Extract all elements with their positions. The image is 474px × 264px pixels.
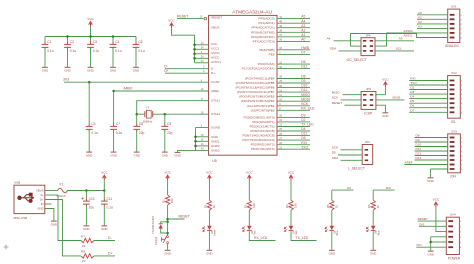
wire rail to C1 [44,37,46,45]
svg-text:GND: GND [51,222,57,226]
svg-text:0.1u: 0.1u [115,49,122,53]
svg-text:R1: R1 [162,199,166,203]
svg-text:RESET: RESET [418,217,428,221]
wire C4 to ground [88,129,90,151]
wire R4 to LED D4 [290,210,292,226]
svg-text:MISO: MISO [332,90,341,94]
svg-text:R6: R6 [367,204,371,208]
svg-text:C2: C2 [70,40,74,44]
wire XTAL1 to crystal [137,101,209,115]
VCC supply reset circuit [164,171,171,181]
IC right pin names [235,17,274,152]
svg-text:AREF: AREF [211,89,219,93]
svg-text:VCC: VCC [164,171,171,175]
svg-text:0.1u: 0.1u [91,131,98,135]
wire rail to C4 [112,37,114,45]
wire diode to switch node [161,229,168,233]
svg-text:GND: GND [206,252,212,256]
svg-text:(PCINT4/ADC11)PB4: (PCINT4/ADC11)PB4 [245,77,275,81]
switch S2 reset button [162,236,169,244]
svg-text:PD2(RXD1/INT2): PD2(RXD1/INT2) [251,143,275,147]
svg-text:HWB: HWB [301,46,309,50]
wire D- to IC pin 3 [165,68,209,70]
junction diode top [166,221,169,224]
fuse F1 symbol [58,188,68,192]
svg-text:A0: A0 [418,11,422,15]
svg-text:RESET: RESET [179,215,190,219]
svg-text:XTAL2: XTAL2 [211,112,221,116]
svg-text:IOH: IOH [450,174,456,178]
wire IC pin 40 net A4 [277,22,310,24]
svg-text:SV1: SV1 [451,5,457,9]
svg-text:USB: USB [14,181,20,185]
svg-text:22p: 22p [139,131,145,135]
wire IC pin 30 net D10 [277,87,310,89]
svg-text:POWER: POWER [448,256,461,260]
svg-text:TX_LED: TX_LED [296,236,309,240]
wire USB D- down [58,195,81,241]
svg-text:C10: C10 [89,197,95,201]
svg-text:F1: F1 [60,182,64,186]
svg-text:D7: D7 [410,108,414,112]
svg-text:R5: R5 [326,204,330,208]
wire IC pin 12 net D11 [277,91,310,93]
ground under C1 [42,67,48,72]
ground under C2 [64,67,70,72]
wire power pin stub [195,62,209,64]
svg-text:D-: D- [211,66,214,70]
svg-text:VCC: VCC [433,198,440,202]
svg-text:VBUS: VBUS [211,26,219,30]
svg-text:0.1u: 0.1u [116,131,123,135]
svg-text:JP2: JP2 [365,140,370,144]
svg-text:R8: R8 [81,250,85,254]
wire IC pin 19 net D2 [277,121,310,123]
wire IC pin 29 net D9 [277,82,310,84]
svg-text:PF0(ADC0): PF0(ADC0) [259,17,275,21]
junction C10 [85,189,88,192]
resistor R4 330 [285,200,298,210]
svg-text:XTAL1: XTAL1 [211,99,221,103]
svg-text:D9: D9 [416,138,420,142]
wire TX LED tail [291,231,317,240]
svg-text:PF5(ADC5/TMS): PF5(ADC5/TMS) [251,30,274,34]
svg-text:VBUS: VBUS [36,189,44,193]
svg-text:MISO: MISO [301,93,310,97]
junction 3V3 to C4 [88,81,91,84]
svg-text:AVCC: AVCC [211,56,220,60]
svg-text:PF6(ADC6/TDO): PF6(ADC6/TDO) [251,35,274,39]
wire IC ground bus [195,128,197,151]
ground under C4 [86,152,92,157]
wire VIN to POWER [416,246,446,248]
wire VCC to R4 [290,180,292,200]
junction POWER ground [429,241,432,244]
wire USB D+ stub [45,199,63,201]
svg-text:(SCLK/PCINT1)PB1: (SCLK/PCINT1)PB1 [247,104,275,108]
capacitor C10 10u [83,197,95,210]
wire A2 to ANALOG [417,23,448,25]
svg-text:MOSI: MOSI [393,96,401,100]
jumper JP4 I2C_SELECT [347,33,376,62]
LED D6 user [366,226,375,232]
wire D3 to IOL [409,93,447,95]
capacitor C11 0.1u [101,197,113,210]
wire USB D+ down [63,200,82,256]
wire IC pin 10 net MOSI [277,100,310,102]
svg-text:GND1: GND1 [211,139,220,143]
wire IC pin 37 net A1 [277,36,310,38]
wire LED to ground [208,231,210,250]
svg-text:22: 22 [82,244,86,248]
junction ground pin [194,145,197,148]
svg-text:D3: D3 [301,114,305,118]
svg-text:0.1u: 0.1u [93,49,100,53]
wire D12 to IOH [415,155,448,157]
LED D2 power [203,226,212,232]
wire R2 to LED D2 [208,210,210,226]
wire C3 to ground [90,47,92,66]
junction C11 VCC [103,189,106,192]
wire VCC to POWER pin3 [436,207,446,231]
ground at USB [51,221,57,226]
svg-text:3V3: 3V3 [419,222,425,226]
svg-text:VCC1: VCC1 [211,47,220,51]
crystal Y1 16MHz [143,105,153,123]
wire D13 to IOH [415,159,448,161]
svg-text:GND: GND [42,69,48,73]
junction power pin [193,48,196,51]
wire R6 to LED D6 [372,210,374,226]
wire rail to C2 [67,37,69,45]
plus sign C10 [81,197,83,199]
inversion bubble /RESET [204,17,207,20]
svg-text:U5: U5 [212,159,217,163]
svg-text:D7: D7 [301,51,305,55]
svg-text:VCC: VCC [288,171,295,175]
svg-text:VCC: VCC [168,18,175,22]
svg-text:A3: A3 [301,24,305,28]
svg-text:C4: C4 [91,122,95,126]
svg-text:16MHz: 16MHz [143,119,153,123]
VCC supply TX LED [288,171,295,181]
svg-text:A5: A5 [301,15,305,19]
svg-text:VCC: VCC [101,171,108,175]
VCC supply at ICSP [382,77,389,87]
wire crystal left [137,113,145,115]
wire MISO to ICSP [343,94,362,96]
svg-text:RX_LED: RX_LED [301,106,314,110]
connector SV1 ANALOG [445,5,462,49]
wire IC pin 1 net D7 [277,53,310,55]
wire ID stub [45,203,52,205]
junction crystal-C8 [135,113,138,116]
svg-text:RXI: RXI [386,186,391,190]
svg-text:GND: GND [86,153,92,157]
svg-text:D+: D+ [211,71,215,75]
svg-text:0.1u: 0.1u [47,49,54,53]
wire rail to C6 [135,37,137,45]
junction crystal-C9 [164,113,167,116]
svg-text:D11: D11 [301,88,307,92]
wire LED6 net tail [373,189,394,191]
wire IC pin 41 net A5 [277,18,310,20]
wire crystal right [153,113,165,115]
svg-text:R2: R2 [203,204,207,208]
svg-text:GND: GND [110,153,116,157]
capacitor C6 0.1u [133,40,145,53]
svg-text:GND: GND [174,154,180,158]
ground under C7 [110,152,116,157]
svg-text:D6: D6 [410,104,414,108]
wire SCK to ICSP [341,99,362,101]
svg-text:D11: D11 [416,147,422,151]
wire jumper mid right to SCL header [375,33,448,46]
junction power pin [193,53,196,56]
svg-text:A4: A4 [327,37,331,41]
VCC supply RX LED [246,171,253,181]
wire down to C4 [88,82,90,126]
svg-text:330: 330 [252,203,256,208]
wire D7 to IOL [409,111,447,113]
svg-text:VCC: VCC [211,42,218,46]
svg-text:SCL: SCL [396,47,402,51]
diode D1 [159,224,163,229]
svg-text:10u: 10u [89,206,95,210]
wire IC pin 28 net D8 [277,78,310,80]
wire to C11 [103,191,105,201]
svg-text:GND: GND [329,252,335,256]
ground under C4 [110,67,116,72]
wire down to C7 [113,91,115,126]
junction power pin [193,57,196,60]
svg-text:PD7(T0/OC4D/ADC10): PD7(T0/OC4D/ADC10) [243,138,275,142]
wire D11 to IOH [415,150,448,152]
wire power pin stub [195,44,209,46]
resistor R1 10k [162,195,175,205]
svg-text:SV4: SV4 [450,213,456,217]
svg-text:AREF: AREF [124,86,133,90]
ground LED5 [329,250,335,255]
svg-text:/RESET: /RESET [211,16,222,20]
svg-text:VCC: VCC [87,17,94,21]
svg-text:GND: GND [110,69,116,73]
ground at IC [174,152,180,157]
svg-text:SCK: SCK [301,102,309,106]
svg-text:C3: C3 [93,40,97,44]
wire IC pin 25 net D4 [277,130,310,132]
IC left pin names [211,16,222,153]
wire switch to ground [167,244,169,250]
wire C1 to ground [44,47,46,66]
svg-text:EVQQ2: EVQQ2 [155,236,158,245]
wire power pin stub [195,57,209,59]
jumper JP3 ICSP [361,87,376,115]
svg-text:GND: GND [64,69,70,73]
wire UCAP net 3V3 [64,81,209,83]
wire power pin stub [195,53,209,55]
svg-text:D-: D- [164,64,168,68]
svg-text:VCC: VCC [382,77,389,81]
svg-text:(SS/PCINT0)PB0: (SS/PCINT0)PB0 [251,108,275,112]
wire D5 to L_SELECT [338,154,362,156]
svg-text:0.1u: 0.1u [107,206,114,210]
wire IC pin 18 net D3 [277,116,310,118]
wire bypass VCC rail [45,36,136,38]
svg-text:D2: D2 [301,118,305,122]
jumper JP2 L_SELECT [348,140,373,171]
svg-text:PD3(TXD1/INT3): PD3(TXD1/INT3) [251,147,275,151]
svg-text:TXO: TXO [301,145,308,149]
VCC supply at USB [101,171,108,181]
wire IC pin 21 net TXO [277,148,310,150]
USB pin names [36,189,44,211]
wire D+ to IC pin 4 [165,72,209,74]
svg-text:MOSI: MOSI [301,97,310,101]
wire rail to C3 [90,37,92,45]
svg-text:Red: Red [295,230,298,235]
svg-text:C6: C6 [138,40,142,44]
wire VCC stem to rail [90,27,92,37]
wire IC pin 36 net A0 [277,40,310,42]
wire IC pin 22 net TX_LED [277,126,310,128]
wire A1 to ANALOG [417,18,448,20]
svg-text:D12: D12 [301,132,307,136]
svg-text:22: 22 [82,259,86,263]
svg-text:VCC: VCC [206,171,213,175]
resistor R5 1k [326,200,339,210]
svg-text:PC7(ICP3/CLK0/OC4A): PC7(ICP3/CLK0/OC4A) [242,67,275,71]
svg-text:R7: R7 [81,234,85,238]
svg-text:D5: D5 [347,186,351,190]
svg-text:Green: Green [214,229,217,236]
wire C10 to ground [85,204,87,225]
ground under C9 [162,152,168,157]
junction on VCC rail [66,35,69,38]
svg-text:A2: A2 [418,20,422,24]
svg-text:VIN: VIN [416,243,421,247]
svg-text:D4: D4 [301,127,305,131]
svg-text:SV3: SV3 [451,129,457,133]
ground at ICSP [382,113,388,118]
wire SCK to L_SELECT [341,149,363,151]
wire RESET to IC pin 13 [177,18,204,20]
svg-text:GND: GND [382,114,388,118]
svg-text:D8: D8 [301,75,305,79]
svg-text:C1: C1 [47,40,51,44]
op-amp U5 ATMEGA32U4 body [209,15,278,155]
wire RX LED tail [249,231,275,240]
wire VCC to R1 [167,180,169,195]
ground under C10 [83,226,89,231]
wire power pin stub [195,48,209,50]
svg-text:PF1(ADC1): PF1(ADC1) [259,21,275,25]
wire ICSP VCC [376,87,386,95]
svg-text:TX_LED: TX_LED [301,123,314,127]
svg-text:D6: D6 [301,136,305,140]
wire C4 to ground [112,47,114,66]
svg-text:3V3: 3V3 [63,78,69,82]
wire tail to R6 [372,190,374,200]
capacitor C2 0.1u [64,40,76,53]
capacitor C4 0.1u [86,122,98,135]
wire jumper over to SDA header [351,34,448,47]
capacitor C3 0.1u [87,40,99,53]
ground power LED [206,250,212,255]
svg-text:PD4(ICP1/ADC8): PD4(ICP1/ADC8) [250,129,274,133]
VCC supply top rail [87,17,94,27]
svg-text:R3: R3 [243,204,247,208]
svg-text:GND: GND [427,252,433,256]
wire LED5 to ground [331,231,333,250]
wire fuse to VCC node [68,190,105,192]
LED D4 TX [284,226,293,232]
svg-text:ANALOG: ANALOG [445,44,459,48]
USB trident symbol [18,193,34,202]
wire A3 to ANALOG [417,27,448,29]
wire C6 to ground [135,47,137,66]
svg-text:D-: D- [108,236,112,240]
svg-text:A4/SDA: A4/SDA [404,29,413,33]
svg-text:C4: C4 [115,40,119,44]
svg-text:D10: D10 [301,84,307,88]
wire VCC to R2 [208,180,210,200]
svg-text:Blue: Blue [377,230,380,235]
wire D9 to IOH [415,141,448,143]
wire to IC ground symbol [178,150,196,152]
svg-text:GND3: GND3 [211,148,220,152]
wire 3V3 to POWER [419,225,446,227]
svg-text:JP3: JP3 [366,87,371,91]
svg-text:VCC: VCC [246,171,253,175]
resistor R3 330 [243,200,256,210]
junction power pin [193,44,196,47]
ground LED6 [370,250,376,255]
svg-text:A5: A5 [399,37,403,41]
svg-text:GND: GND [87,69,93,73]
svg-text:RXI: RXI [301,141,307,145]
svg-text:D13: D13 [301,65,307,69]
wire down to C9 [164,114,166,126]
wire D10 to IOH [415,146,448,148]
svg-text:L_SELECT: L_SELECT [348,167,365,171]
svg-text:PD0(OC0B/SCL/INT0): PD0(OC0B/SCL/INT0) [244,115,275,119]
svg-text:C11: C11 [107,197,113,201]
svg-text:PF4(ADC4/TCK): PF4(ADC4/TCK) [251,26,274,30]
svg-text:A4: A4 [301,19,305,23]
wire IC ground pin stub [196,127,209,129]
svg-text:10k: 10k [170,198,174,203]
connector X1 mini-USB body [14,185,45,213]
connector SV2 IOL [448,71,463,124]
wire VCC to power pins [172,28,195,63]
ground under C11 [101,226,107,231]
wire GND pin5 [431,241,447,243]
wire IC pin 20 net RXI [277,144,310,146]
svg-text:SCK: SCK [332,96,339,100]
VCC supply power LED [206,171,213,181]
wire SDA to L_SELECT [341,159,363,161]
svg-text:ATMEGA32U4-AU: ATMEGA32U4-AU [232,9,272,15]
wire R3 to LED D3 [248,210,250,226]
svg-text:Y1: Y1 [146,105,150,109]
wire C7 to ground [113,129,115,151]
svg-text:D9: D9 [301,79,305,83]
wire VCC stem [103,180,105,190]
wire D6 to IOL [409,107,447,109]
svg-text:D3: D3 [410,90,414,94]
wire LED5 net tail [332,189,354,191]
